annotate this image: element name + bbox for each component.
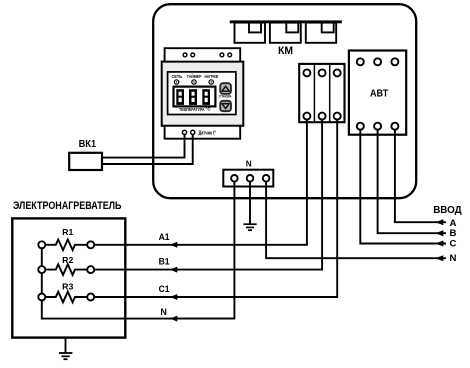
- display frame: [174, 87, 216, 107]
- input N arrow: [435, 255, 443, 261]
- indicator НАГРЕВ: [205, 74, 219, 84]
- svg-text:N: N: [246, 159, 252, 168]
- button down: [220, 101, 231, 111]
- svg-text:B1: B1: [159, 257, 170, 267]
- svg-text:АВТ: АВТ: [370, 89, 388, 100]
- svg-text:С: С: [450, 239, 457, 250]
- resistor R2: [38, 255, 94, 275]
- wire breaker to input A: [395, 126, 446, 222]
- input A arrow: [435, 219, 443, 225]
- svg-text:ВК1: ВК1: [79, 139, 97, 150]
- ground (panel): [243, 224, 256, 230]
- svg-text:N: N: [450, 253, 457, 264]
- breaker АВТ: [349, 51, 406, 135]
- indicator СЕТЬ: [172, 74, 183, 84]
- svg-text:ТЕМПЕРАТУРА: ТЕМПЕРАТУРА: [179, 107, 205, 112]
- svg-text:НАГРЕВ: НАГРЕВ: [205, 74, 219, 79]
- resistor R1: [38, 227, 94, 250]
- svg-text:A1: A1: [159, 232, 170, 242]
- svg-text:N: N: [160, 307, 167, 317]
- wire heater ground stub: [65, 338, 67, 353]
- KM module 1: [235, 23, 266, 43]
- svg-text:ЭЛЕКТРОНАГРЕВАТЕЛЬ: ЭЛЕКТРОНАГРЕВАТЕЛЬ: [13, 200, 122, 212]
- wire pole1 to A1: [92, 116, 307, 245]
- contactor KM mounting bar: [230, 20, 342, 23]
- wire sensor terminal 1 to BK1: [102, 134, 185, 158]
- svg-text:УСТАНОВКА: УСТАНОВКА: [219, 95, 232, 99]
- KM module 3: [306, 23, 336, 43]
- node N arrow (heater): [170, 316, 177, 322]
- input B arrow: [435, 230, 443, 236]
- resistor R3: [38, 282, 94, 303]
- svg-text:°С: °С: [206, 106, 212, 111]
- thermostat sensor terminals: [182, 130, 194, 134]
- wire sensor terminal 2 to BK1: [102, 134, 193, 164]
- digit 8 (3): [202, 89, 210, 105]
- wire breaker to input B: [378, 126, 446, 233]
- svg-text:КМ: КМ: [278, 45, 293, 57]
- svg-text:СЕТЬ: СЕТЬ: [172, 74, 183, 79]
- svg-text:R1: R1: [62, 227, 73, 237]
- svg-text:C1: C1: [159, 284, 170, 294]
- heater box: [12, 218, 125, 337]
- node B1 arrow: [170, 267, 177, 273]
- KM module 2: [270, 23, 301, 43]
- N block terminals: [231, 175, 269, 182]
- wire breaker to input C: [360, 126, 446, 243]
- breaker terminals: [357, 58, 399, 129]
- heater N bus: [42, 245, 235, 319]
- wire N block to heater: [170, 178, 234, 318]
- terminal block N: [223, 170, 273, 187]
- thermostat U1 body: [162, 48, 244, 139]
- input C arrow: [435, 241, 443, 247]
- node A1 arrow: [170, 242, 177, 248]
- contactor pole block: [299, 64, 344, 122]
- label ТЕМПЕРАТУРА °C: [179, 106, 211, 112]
- wire N block to ground: [249, 178, 251, 224]
- digit 8 (1): [176, 89, 184, 105]
- contactor pole terminals: [303, 69, 340, 119]
- node C1 arrow: [170, 294, 177, 300]
- svg-text:ТАЙМЕР: ТАЙМЕР: [187, 74, 202, 79]
- svg-text:ВВОД: ВВОД: [433, 204, 462, 216]
- ground (heater): [59, 353, 73, 359]
- wire pole3 to C1: [92, 116, 337, 297]
- button up: [220, 83, 231, 94]
- digit 8 (2): [189, 89, 197, 105]
- svg-text:В: В: [450, 228, 457, 239]
- wire pole2 to B1: [92, 116, 322, 270]
- svg-text:Датчик t°: Датчик t°: [199, 130, 217, 136]
- sensor BK1: [69, 153, 102, 170]
- panel enclosure: [153, 4, 416, 198]
- thermostat top terminals: [183, 53, 232, 57]
- wire N block to input N: [266, 178, 446, 258]
- indicator ТАЙМЕР: [187, 74, 202, 84]
